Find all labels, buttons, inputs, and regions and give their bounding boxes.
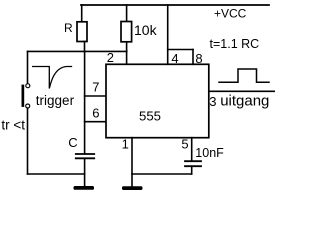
svg-text:5: 5 <box>181 137 188 152</box>
svg-text:4: 4 <box>171 51 178 66</box>
svg-text:10nF: 10nF <box>195 146 224 160</box>
svg-text:8: 8 <box>195 51 202 66</box>
svg-text:uitgang: uitgang <box>220 92 269 109</box>
svg-text:3: 3 <box>209 94 216 109</box>
svg-text:t=1.1 RC: t=1.1 RC <box>210 37 260 51</box>
svg-text:tr <t: tr <t <box>1 117 25 132</box>
svg-text:R: R <box>64 21 73 35</box>
svg-text:trigger: trigger <box>36 93 75 108</box>
svg-text:2: 2 <box>107 50 114 65</box>
svg-text:C: C <box>68 135 77 150</box>
svg-text:10k: 10k <box>134 22 158 38</box>
svg-text:1: 1 <box>122 136 129 151</box>
svg-text:6: 6 <box>92 105 99 120</box>
svg-text:+VCC: +VCC <box>214 7 247 21</box>
svg-text:555: 555 <box>139 108 161 123</box>
svg-text:7: 7 <box>92 80 99 95</box>
